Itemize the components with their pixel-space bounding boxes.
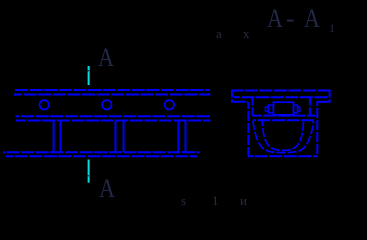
cross-section: plate bottom line bbox=[234, 96, 329, 98]
small glyph bottom 2 bbox=[212, 193, 219, 209]
post pair 1 left bbox=[53, 121, 55, 152]
small glyph bottom 1 bbox=[181, 193, 186, 209]
cross-section: plate top line bbox=[232, 90, 330, 92]
title letter A first bbox=[267, 4, 283, 34]
section line bottom segment bbox=[88, 160, 90, 183]
belt inner curve bbox=[262, 121, 303, 150]
left view: mid rail line 4 bbox=[16, 120, 211, 122]
title subscript bbox=[329, 21, 335, 36]
section line top segment bbox=[88, 66, 90, 85]
post pair 1 right bbox=[60, 121, 62, 152]
belt outer curve bbox=[253, 121, 314, 153]
roller circle 3 bbox=[165, 100, 174, 109]
trolley left step bbox=[268, 105, 273, 113]
title letter A second bbox=[304, 4, 320, 34]
section line bottom segment notch bbox=[87, 175, 89, 176]
post pair 2 right bbox=[123, 121, 125, 152]
left view: top rail line 1 bbox=[15, 89, 210, 91]
section label A bottom bbox=[99, 174, 115, 204]
small glyph bottom 3 bbox=[240, 193, 247, 209]
section label A top bbox=[98, 43, 114, 73]
left view: top rail line 2 bbox=[14, 94, 211, 96]
trolley main rect bbox=[273, 102, 293, 115]
left view: mid rail line 3 bbox=[16, 115, 211, 117]
cross-section: trough bottom line bbox=[248, 155, 317, 157]
left view: bottom rail line 5 bbox=[3, 151, 200, 153]
roller circle 1 bbox=[40, 100, 49, 109]
cross-section: housing right wall bbox=[309, 97, 311, 116]
small glyph top 1 bbox=[216, 26, 222, 42]
small glyph top 2 bbox=[243, 26, 250, 42]
cross-section: trough top line bbox=[253, 119, 314, 121]
cross-section: plate right edge bbox=[329, 90, 331, 103]
post pair 2 left bbox=[115, 121, 117, 152]
title dash bbox=[286, 4, 295, 34]
roller circle 2 bbox=[102, 100, 111, 109]
cross-section: housing left wall bbox=[252, 97, 254, 116]
section line top segment notch bbox=[87, 70, 89, 71]
cross-section: right shoulder bbox=[317, 101, 330, 103]
post pair 3 left bbox=[177, 121, 179, 152]
cross-section: left shoulder bbox=[232, 101, 248, 103]
cross-section: trough right wall bbox=[316, 102, 318, 156]
left view: bottom rail line 6 bbox=[6, 155, 197, 157]
trolley left stub bbox=[265, 107, 268, 111]
cross-section: housing bottom line bbox=[253, 115, 315, 117]
cross-section: plate left edge bbox=[231, 90, 233, 103]
trolley right stub bbox=[298, 107, 300, 111]
cross-section: trough left wall bbox=[247, 102, 249, 156]
trolley right step bbox=[294, 105, 298, 113]
post pair 3 right bbox=[185, 121, 187, 152]
